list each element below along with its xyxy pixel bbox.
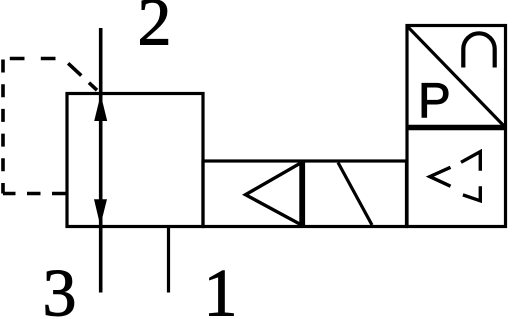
wire: pilot line diagonal to valve (dashed) [63,59,101,94]
top box diagonal [408,27,505,127]
wire: pilot line bottom horizontal (dashed) [3,192,67,196]
wire: port 2 to port 3 through-line [99,28,103,293]
nozzle arc symbol [463,33,494,67]
sensor stack outer box (right) [407,26,506,227]
wire: pilot line left vertical (dashed) [1,57,5,194]
sensor stack divider [407,125,506,130]
wire: port 1 stub [167,227,170,293]
svg-text:2: 2 [138,0,172,60]
middle valve section box [203,161,407,227]
check valve triangle (left cell) [246,163,302,225]
wire: pilot line top horizontal (dashed) [3,57,63,61]
flow arrowhead up (at port 2 side) [94,95,107,122]
flow arrowhead down (at port 3 side) [94,199,107,226]
blocked path diagonal (right cell) [338,163,372,226]
exhaust triangle dash: top-right corner [461,152,480,171]
svg-text:P: P [418,74,451,128]
middle section divider [302,161,305,227]
valve body box (left square) [67,94,203,227]
svg-text:3: 3 [43,255,77,319]
svg-text:1: 1 [204,255,238,319]
exhaust triangle dash: left apex chevron [430,167,451,186]
exhaust triangle dash: bottom-right corner [463,186,480,201]
